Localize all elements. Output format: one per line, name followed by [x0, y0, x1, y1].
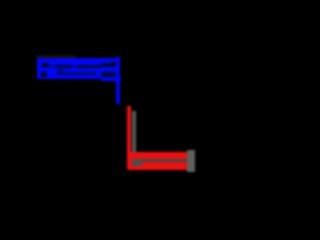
bond line L1c right (dark over band) — [101, 63, 114, 66]
gray slab right (label remnant) — [187, 150, 195, 172]
band bottom-right blue row — [101, 77, 121, 81]
gray line inside red band — [136, 159, 187, 162]
red band bottom (O-H group) — [128, 152, 187, 170]
bond line L1b (dark over band) — [77, 65, 101, 68]
node S=C=N blue band — [37, 58, 116, 80]
gray joint patch — [132, 159, 142, 166]
faint olive fringe above band (jpeg artifact) — [36, 55, 76, 58]
bond C=O vertical red line — [127, 106, 131, 169]
bond C=O vertical gray line — [132, 111, 137, 166]
atom glyph hole bottom (dark) — [41, 72, 47, 77]
atom glyph hole top (dark) — [42, 63, 50, 68]
bond line L1 weak seg (dark over band) — [49, 65, 56, 68]
bond line L2c (dark over band) — [101, 72, 116, 77]
glyph dark patch (over band) — [58, 69, 64, 72]
bond line L2 mid (dark over band) — [57, 72, 96, 75]
bond line L1 weak seg2 (dark over band) — [72, 65, 77, 68]
bond N-C vertical (blue) — [116, 57, 121, 104]
bond line L1a (dark over band) — [56, 65, 72, 68]
corner notch (dark) — [111, 62, 116, 66]
